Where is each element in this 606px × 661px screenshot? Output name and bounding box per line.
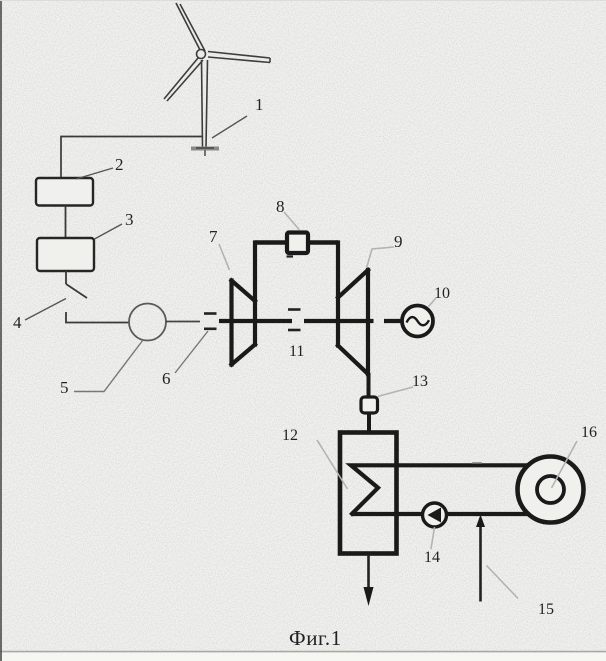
svg-text:10: 10 [434, 285, 450, 302]
svg-text:8: 8 [276, 197, 285, 216]
svg-text:4: 4 [13, 313, 22, 332]
svg-text:6: 6 [162, 369, 171, 388]
svg-text:15: 15 [538, 601, 554, 618]
svg-text:Фиг.1: Фиг.1 [289, 626, 342, 650]
svg-text:5: 5 [60, 378, 69, 397]
svg-text:14: 14 [424, 549, 440, 566]
svg-text:2: 2 [115, 155, 124, 174]
svg-text:11: 11 [289, 343, 304, 360]
svg-text:13: 13 [412, 373, 428, 390]
svg-text:7: 7 [209, 227, 218, 246]
svg-text:12: 12 [282, 427, 298, 444]
svg-text:1: 1 [255, 95, 264, 114]
svg-text:9: 9 [394, 232, 403, 251]
svg-text:16: 16 [581, 424, 597, 441]
svg-text:3: 3 [125, 210, 134, 229]
